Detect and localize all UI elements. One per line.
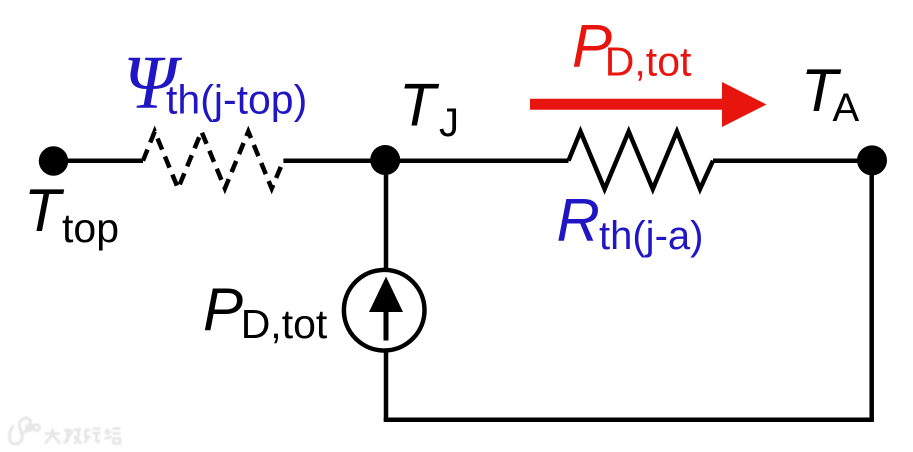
watermark logo swoosh [9,418,39,444]
svg-text:D,tot: D,tot [605,39,692,85]
watermark text 大数跨境 [45,429,121,444]
wire: node T_J to resistor Rth(j-a) [386,158,569,163]
resistor Rth(j-a) zigzag [569,132,714,190]
power flow arrow head [722,82,767,127]
svg-text:th(j-top): th(j-top) [166,77,307,123]
svg-text:A: A [833,86,860,130]
svg-text:R: R [557,187,600,254]
node T_A (dot) [857,145,887,175]
svg-text:J: J [439,101,459,145]
svg-text:T: T [399,72,440,139]
svg-text:D,tot: D,tot [241,301,328,347]
current source arrow (triangle + stem) [369,277,403,313]
wire: resistor Rth(j-a) to node T_A [713,158,872,163]
wire: T_top node to dashed resistor [52,158,143,163]
svg-text:th(j-a): th(j-a) [599,214,703,258]
wire: right vertical from T_A to bottom rail [869,161,874,420]
svg-text:top: top [62,205,119,251]
wire: dashed resistor to node T_J [283,158,386,163]
resistor PSIth(j-top) dashed zigzag [143,132,283,189]
wire: T_J down to current source [384,161,389,272]
svg-text:P: P [203,276,243,343]
svg-text:T: T [24,177,65,244]
node T_J (dot) [370,145,400,175]
wire: bottom rail [384,417,874,422]
current source P_D,tot (circle) [344,270,425,351]
node T_top (dot) [39,146,68,175]
power flow arrow P_D,tot (red shaft) [530,99,724,110]
wire: current source to bottom rail [384,349,389,420]
